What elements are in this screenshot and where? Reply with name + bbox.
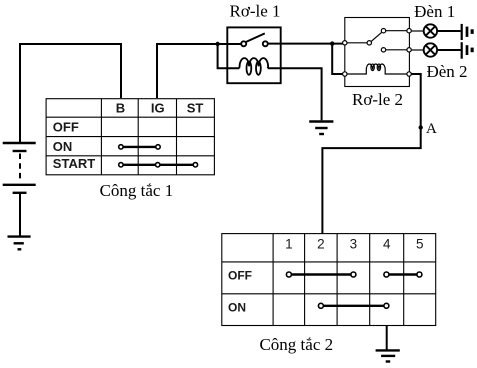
wire lamp2 to battery plate: [437, 49, 461, 51]
svg-text:Công tắc 2: Công tắc 2: [259, 335, 333, 354]
relay U2 coil loop oval 1: [371, 64, 374, 71]
switch table CT2 (Cong tac 2) grid: [222, 234, 436, 326]
battery B2 plates (lamp1): [462, 24, 467, 40]
CT1 ON contact bar B-IG: [121, 146, 158, 148]
svg-text:OFF: OFF: [228, 269, 252, 283]
relay U2 pivot contact: [367, 41, 371, 45]
wire relay1 switch out to relay2: [268, 43, 342, 45]
relay U1 coil L1: [239, 58, 268, 68]
wire relay2 output through node A to switch2: [322, 74, 420, 234]
wire relay1 coil to ground: [268, 68, 322, 120]
CT2 OFF contact bar 1-3: [289, 273, 354, 275]
svg-text:A: A: [426, 121, 437, 137]
svg-text:START: START: [53, 156, 95, 171]
node J1 (junction on IG wire): [215, 42, 219, 46]
svg-text:1: 1: [285, 237, 293, 252]
relay box U1 (Ro-le 1): [227, 27, 280, 83]
battery B3 plates (lamp2): [462, 42, 467, 59]
relay U2 inner wire upper contact to right terminal: [386, 30, 409, 32]
svg-text:OFF: OFF: [53, 120, 79, 135]
CT1 START contact bar B-IG-ST: [121, 164, 195, 166]
relay U1 switch left contact: [241, 41, 246, 46]
relay U2 coil L2: [347, 64, 407, 74]
svg-text:IG: IG: [151, 101, 165, 116]
wire relay2 middle terminal to lamp2: [411, 49, 423, 51]
relay U1 switch right contact: [263, 41, 268, 46]
svg-text:ON: ON: [228, 301, 246, 315]
relay U2 terminal right lower: [407, 72, 411, 76]
ground G1 (battery ground): [8, 237, 31, 250]
battery B1 cell2 long plate: [3, 184, 36, 186]
wire J2 branch to relay2 coil terminal: [332, 44, 342, 74]
ground G3 (switch2 ground): [376, 350, 400, 361]
switch table CT1 (Cong tac 1) grid: [46, 99, 214, 175]
relay U2 coil loop oval 2: [377, 64, 380, 71]
wire relay2 upper terminal to lamp1: [411, 30, 423, 32]
svg-text:ON: ON: [53, 139, 73, 154]
relay U2 lower fixed contact: [381, 48, 385, 52]
wire battery+ to B column: [20, 44, 121, 142]
relay U2 upper fixed contact: [381, 29, 385, 33]
relay U2 inner wire common to pivot: [345, 42, 367, 44]
wire J1 branch to relay1 coil: [218, 44, 240, 68]
svg-text:4: 4: [383, 237, 391, 252]
svg-text:3: 3: [350, 237, 358, 252]
battery B1 cell2 short plate: [13, 192, 27, 194]
wire lamp1 to battery plate: [437, 30, 461, 32]
svg-text:B: B: [116, 101, 125, 116]
node J2: [330, 41, 334, 45]
svg-text:ST: ST: [187, 101, 204, 116]
battery B1 dashed link: [19, 154, 21, 183]
battery B1 cell1 long plate: [3, 142, 36, 144]
relay U1 coil loop oval 1: [247, 62, 252, 75]
svg-text:Rơ-le 1: Rơ-le 1: [229, 1, 280, 20]
wire CT2 pin4 to ground: [386, 326, 388, 350]
relay U1 switch arm: [246, 33, 265, 42]
relay U2 terminal left lower: [343, 72, 347, 76]
CT2 ON contact bar 2-4: [321, 305, 387, 307]
relay U2 terminal right upper: [407, 29, 411, 33]
lamp DEN1: [424, 24, 437, 37]
wire IG column to relay1 switch input: [157, 44, 241, 98]
wire battery- to ground: [19, 194, 21, 236]
ground G2 (relay1 coil ground): [309, 122, 333, 135]
relay box U2 (Ro-le 2): [345, 18, 410, 87]
relay U2 terminal right middle: [407, 48, 411, 52]
lamp DEN2: [424, 43, 437, 56]
relay U2 inner wire lower contact to right terminal: [386, 49, 409, 51]
svg-text:Đèn 2: Đèn 2: [426, 62, 467, 81]
node A junction dot: [419, 125, 423, 129]
CT2 OFF contact bar 4-5: [386, 273, 419, 275]
svg-text:5: 5: [416, 237, 424, 252]
svg-text:Đèn 1: Đèn 1: [414, 2, 455, 21]
battery B1 cell1 short plate: [13, 150, 27, 152]
relay U2 terminal left upper: [343, 41, 347, 45]
svg-text:2: 2: [317, 237, 325, 252]
svg-text:Công tắc 1: Công tắc 1: [100, 181, 174, 200]
svg-text:Rơ-le 2: Rơ-le 2: [352, 90, 403, 109]
relay U2 switch arm: [371, 32, 381, 41]
relay U1 coil loop oval 2: [256, 62, 261, 75]
